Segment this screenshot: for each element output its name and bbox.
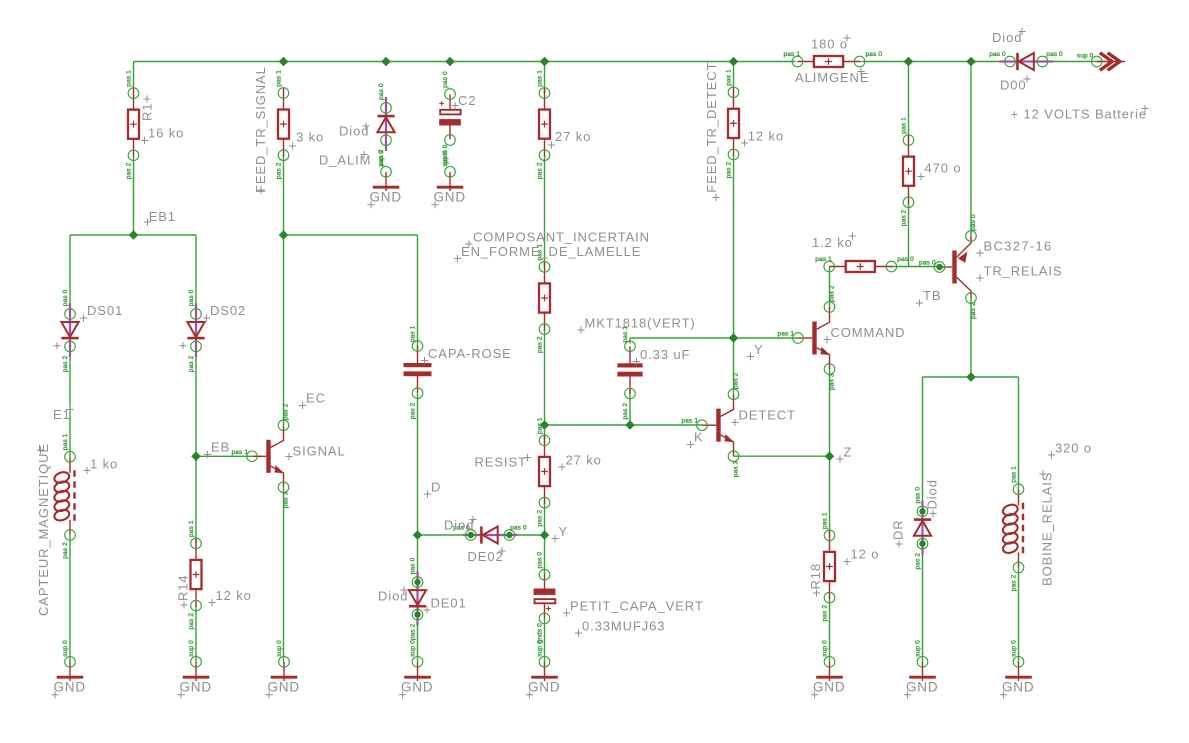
svg-text:1.2 ko: 1.2 ko [812,235,853,250]
svg-text:sup 0: sup 0 [1077,53,1094,60]
svg-text:pas 3: pas 3 [829,373,836,390]
wire Y bus top [630,337,798,339]
svg-text:pas 2: pas 2 [822,605,829,622]
svg-text:CAPA-ROSE: CAPA-ROSE [428,346,512,361]
label value 320 o [1048,441,1092,459]
label ALIMGENE [795,68,869,85]
svg-text:GND: GND [434,190,466,205]
svg-text:pas 2: pas 2 [733,372,740,389]
svg-text:pas 2: pas 2 [62,542,69,559]
label value 12 ko r14 [208,588,251,606]
label Y top [747,342,764,360]
wire supply stub [1052,61,1104,63]
junction Y right [729,333,739,343]
label K [687,430,704,449]
svg-text:pas 2: pas 2 [188,355,195,372]
svg-text:pas 1: pas 1 [276,70,283,87]
svg-text:GND: GND [401,680,433,695]
svg-text:12 ko: 12 ko [748,128,784,143]
svg-text:pas 0: pas 0 [510,525,527,532]
capacitor PETIT_CAPA_VERT [534,552,556,644]
label batterie [1011,105,1149,122]
svg-text:GND: GND [528,680,560,695]
diode D00 [989,51,1063,70]
label CAPA-ROSE [421,346,512,364]
svg-text:DE01: DE01 [431,596,467,611]
label DS02 [203,303,246,322]
svg-text:pas 0: pas 0 [378,83,385,100]
junction rail/470 [904,57,914,67]
junction rail/d_alim [381,57,391,67]
junction Y bottom [540,530,550,540]
label BC327-16 [976,239,1052,257]
label C2 [451,93,476,109]
label DE02 [468,547,506,564]
svg-text:470 o: 470 o [925,161,962,176]
svg-text:0.33MUFJ63: 0.33MUFJ63 [582,619,665,634]
wire to DR [922,377,924,505]
svg-text:pas 0: pas 0 [897,256,914,263]
wire TR collector to relay [970,298,972,377]
svg-text:pas 2: pas 2 [726,162,733,179]
label EC [299,391,326,410]
label Diod dr [925,479,940,517]
svg-text:pas 3: pas 3 [733,460,740,477]
junction rail/TR [966,57,976,67]
resistor RESIST 27k [537,417,551,526]
wire 1.2k to command collector [829,267,831,308]
svg-text:sup 0: sup 0 [410,640,417,657]
svg-text:R14: R14 [176,574,191,601]
svg-text:Y: Y [559,524,569,539]
svg-text:pas 2: pas 2 [970,302,977,319]
svg-text:12 o: 12 o [851,547,880,562]
junction rail/27k [540,57,550,67]
svg-text:RESIST: RESIST [475,455,527,470]
svg-text:Y: Y [754,342,764,357]
label BOBINE_RELAIS [1039,470,1054,586]
svg-text:pas 2: pas 2 [915,553,922,570]
wire to DS01 [69,235,71,308]
svg-text:MKT1818(VERT): MKT1818(VERT) [585,316,696,331]
supply arrow +12V [1077,53,1126,71]
wire 1.2k to TB base [892,266,940,268]
transistor COMMAND [778,285,836,390]
svg-text:pas 2: pas 2 [276,162,283,179]
svg-text:GND: GND [180,680,212,695]
resistor 3k FEED_TR_SIGNAL [276,70,290,179]
svg-text:GND: GND [906,680,938,695]
svg-text:pas 1: pas 1 [726,69,733,86]
svg-text:EC: EC [306,391,326,406]
resistor 1.2k [815,256,914,272]
label R18 [808,563,823,597]
wire EB to base [196,455,252,457]
junction K mkt [625,420,635,430]
svg-text:pas 2: pas 2 [622,403,629,420]
wire 470 top [908,62,910,141]
label Diod de02 [444,516,477,533]
svg-text:3 ko: 3 ko [296,130,324,145]
wire 12k top [733,62,735,88]
label COMPOSANT_INCERTAIN [465,230,650,248]
resistor 12k FEED_TR_DETECT [726,69,740,178]
svg-text:pas 1: pas 1 [1011,466,1018,483]
label R1 [140,95,155,121]
svg-text:GND: GND [813,680,845,695]
inductor CAPTEUR_MAGNETIQUE [53,433,75,558]
svg-text:12 ko: 12 ko [216,588,252,603]
transistor TR_RELAIS [919,214,977,319]
label EB [204,440,230,459]
svg-text:pas 2: pas 2 [537,336,544,353]
resistor R14 12k [188,520,202,629]
label value 27 ko resist [558,453,601,471]
label value 0.33MUFJ63 [575,619,666,637]
svg-text:R18: R18 [808,563,823,590]
svg-text:pas 0: pas 0 [1046,51,1063,58]
wire EC to capa-rose [284,234,418,236]
label value 0.33 uF [633,347,690,365]
svg-text:pas 2: pas 2 [126,162,133,179]
svg-text:GND: GND [1002,680,1034,695]
resistor 470o [901,117,915,226]
svg-text:pas 1: pas 1 [188,520,195,537]
svg-text:Diod: Diod [992,30,1022,45]
svg-text:ALIMGENE: ALIMGENE [795,70,869,85]
svg-text:pas 1: pas 1 [410,325,417,342]
wire 470 to TB wire [908,202,910,267]
svg-text:pas 0: pas 0 [442,71,449,88]
label value 12 ko det [741,128,784,146]
wire capa-rose drop [417,235,419,348]
svg-text:pas 2: pas 2 [537,510,544,527]
wire SIGNAL emitter to gnd [283,487,285,661]
wire DS02 to R14/EB [195,353,197,543]
svg-text:C2: C2 [458,93,476,108]
wire DR to gnd [922,551,924,662]
junction EC [279,230,289,240]
svg-text:GND: GND [268,680,300,695]
junction D node [413,530,423,540]
label TB [916,288,942,307]
junction EB [191,452,201,462]
wire capa-rose to D node [417,394,419,535]
svg-text:DS01: DS01 [87,303,123,318]
inductor BOBINE_RELAIS [1002,466,1024,591]
wire 27k to lamelle [544,155,546,267]
ground GND c2 [431,150,466,208]
svg-text:FEED_TR_SIGNAL: FEED_TR_SIGNAL [253,66,268,193]
svg-text:pas 1: pas 1 [537,70,544,87]
wire resist to petit cap [544,503,546,575]
svg-text:pas 2: pas 2 [410,623,417,640]
diode DR [914,487,931,570]
svg-text:EN_FORME_DE_LAMELLE: EN_FORME_DE_LAMELLE [461,244,641,259]
label value 470 o [917,161,961,181]
capacitor CAPA-ROSE [404,325,432,419]
diode DS02 [187,289,204,372]
label Diod d00 [992,28,1026,45]
capacitor MKT1818 [617,326,642,420]
label RESIST [475,454,532,470]
svg-text:pas 2: pas 2 [537,162,544,179]
label value 12 o r18 [843,547,879,566]
svg-text:sup 0: sup 0 [822,640,829,657]
junction EB1 [129,230,139,240]
diode D_ALIM [377,83,394,166]
svg-text:sup 0: sup 0 [378,150,385,167]
label COMMAND [823,325,905,343]
ground GND bobine [1000,640,1035,698]
svg-text:pas 1: pas 1 [901,117,908,134]
wire Y bus bottom [418,534,545,536]
ground GND d_alim [367,150,402,208]
wire R18 to gnd [829,598,831,662]
diode DE02 [453,525,527,544]
label D_ALIM [319,151,371,168]
ground GND dr [904,640,939,698]
transistor SIGNAL [232,403,290,508]
label D00 [1000,75,1031,92]
ground GND signal [265,640,300,698]
label EB1 [144,209,176,226]
label TR_RELAIS [976,264,1062,282]
svg-text:Diod: Diod [925,479,940,509]
label MKT1818(VERT) [577,316,695,334]
svg-text:sup 0: sup 0 [276,640,283,657]
svg-text:FEED_TR_DETECT: FEED_TR_DETECT [704,62,719,193]
svg-text:sup 0: sup 0 [442,150,449,167]
svg-text:pas 0: pas 0 [970,214,977,231]
wire relay top bus [923,376,1019,378]
svg-text:pas 0: pas 0 [537,552,544,569]
wire R14 to gnd [195,606,197,662]
svg-text:COMPOSANT_INCERTAIN: COMPOSANT_INCERTAIN [473,230,650,245]
svg-text:pas 1: pas 1 [784,51,801,58]
svg-text:K: K [694,430,704,445]
label Y bottom [551,524,568,542]
svg-text:pas 2: pas 2 [1011,574,1018,591]
svg-text:SIGNAL: SIGNAL [293,444,346,459]
label EN_FORME_DE_LAMELLE [454,244,641,262]
svg-text:EB: EB [211,440,230,455]
svg-text:PETIT_CAPA_VERT: PETIT_CAPA_VERT [570,599,704,614]
diode DS01 [61,289,78,372]
resistor 27k top [537,70,551,179]
svg-text:D00: D00 [1000,78,1027,93]
svg-text:pas 1: pas 1 [682,418,699,425]
label value 3 ko [289,130,324,150]
resistor ALIMGENE 180o [784,51,883,67]
svg-text:D: D [431,480,441,495]
svg-text:pas 1: pas 1 [537,417,544,434]
svg-text:BOBINE_RELAIS: BOBINE_RELAIS [1040,472,1055,586]
svg-text:COMMAND: COMMAND [831,325,906,340]
svg-text:TB: TB [923,288,941,303]
svg-text:DR: DR [891,519,906,540]
svg-text:DS02: DS02 [210,303,246,318]
label R14 [176,574,191,608]
wire command emitter to R18 [829,369,831,535]
svg-text:sup 0: sup 0 [1011,640,1018,657]
wire detect emitter to Z [734,455,830,457]
junction rail/12k [729,57,739,67]
label value 180 o [811,34,851,51]
svg-text:GND: GND [54,680,86,695]
svg-text:27 ko: 27 ko [555,129,591,144]
svg-text:16 ko: 16 ko [148,126,184,141]
label value 1 ko [83,457,118,475]
svg-text:Z: Z [844,445,853,460]
svg-text:sup 0: sup 0 [537,640,544,657]
label plus ds01 [53,342,60,349]
wire rail to TR emitter [970,62,972,236]
label Diod de01 [378,586,408,603]
svg-text:pas 2: pas 2 [901,209,908,226]
svg-text:pas 2: pas 2 [188,613,195,630]
wire +12V top rail left [134,61,796,63]
svg-text:DETECT: DETECT [739,408,796,423]
svg-text:pas 1: pas 1 [822,512,829,529]
svg-text:sup 0: sup 0 [188,640,195,657]
wire K bus [545,424,703,426]
label value 1.2 ko [812,232,856,250]
junction relay [966,372,976,382]
wire to DE01 [417,535,419,575]
wire DE01 to gnd [417,621,419,662]
svg-text:pas 0: pas 0 [410,557,417,574]
capacitor C2 [439,71,461,165]
wire DS01 to coil [69,353,71,457]
label D [424,480,441,498]
wire lamelle to resist [544,329,546,441]
label plus ds02 [179,342,186,349]
label E1 [53,406,74,422]
svg-text:pas 0: pas 0 [62,289,69,306]
resistor R18 12o [822,512,836,621]
junction Z [825,451,835,461]
svg-text:BC327-16: BC327-16 [984,239,1053,254]
label FEED_TR_SIGNAL [253,66,268,193]
label PETIT_CAPA_VERT [563,599,704,617]
wire petit cap to gnd [544,618,546,661]
svg-text:pas 2: pas 2 [410,402,417,419]
svg-text:R1: R1 [140,103,155,121]
svg-text:TR_RELAIS: TR_RELAIS [984,264,1063,279]
wire R1 to EB1 [133,156,135,235]
svg-text:+ 12 VOLTS Batterie: + 12 VOLTS Batterie [1011,107,1147,122]
ground GND r18 [811,640,846,698]
label value 16 ko [141,126,184,145]
svg-text:EB1: EB1 [149,209,176,224]
svg-text:pas 1: pas 1 [126,70,133,87]
transistor DETECT [682,372,740,477]
svg-text:pas 1: pas 1 [778,331,795,338]
wire coil to gnd [69,535,71,662]
wire to bobine [1018,377,1020,489]
label DETECT [731,408,796,427]
svg-text:pas 0: pas 0 [188,289,195,306]
svg-text:CAPTEUR_MAGNETIQUE: CAPTEUR_MAGNETIQUE [36,443,51,616]
svg-text:pas 3: pas 3 [283,491,290,508]
svg-text:sup 0: sup 0 [915,640,922,657]
svg-text:1 ko: 1 ko [90,457,118,472]
svg-text:pas 2: pas 2 [283,403,290,420]
label DE01 [423,596,466,614]
wire EC column [283,155,285,425]
ground GND r14 [177,640,212,698]
junction rail/c2 [445,57,455,67]
ground GND de01 [399,640,434,698]
label DR [891,519,906,547]
svg-text:sup 0: sup 0 [62,640,69,657]
svg-text:pas 2: pas 2 [829,285,836,302]
diode DE01 [409,557,426,640]
label DS01 [80,303,123,322]
label FEED_TR_DETECT [704,62,720,201]
svg-text:pas 0: pas 0 [919,260,936,267]
wire to DS02 [195,235,197,308]
wire R1 top [133,62,135,89]
wire 27k top [544,62,546,94]
resistor R1 16k [126,70,140,179]
wire bobine to gnd [1018,567,1020,662]
wire EB1 bus [70,234,196,236]
svg-text:pas 1: pas 1 [232,449,249,456]
wire 12k to detect collector [733,155,735,394]
ground GND capteur [51,640,86,698]
svg-text:pas 0: pas 0 [915,487,922,504]
svg-text:pas 2: pas 2 [62,355,69,372]
junction rail/3k [279,57,289,67]
ground GND petit [526,640,561,698]
wire mkt to K bus [629,390,631,425]
label value 27 ko top [548,129,591,149]
label CAPTEUR_MAGNETIQUE [36,443,51,616]
wire mkt riser [629,338,631,344]
svg-text:pas 0: pas 0 [989,51,1006,58]
svg-text:320 o: 320 o [1055,441,1092,456]
svg-text:pas 1: pas 1 [62,433,69,450]
svg-text:0.33 uF: 0.33 uF [640,347,690,362]
label Z [836,445,852,463]
wire +12V top rail mid [862,61,1002,63]
resistor COMPOSANT_INCERTAIN [537,244,551,353]
label Diod d_alim [339,122,370,138]
svg-text:pas 1: pas 1 [815,256,832,263]
svg-text:pas 0: pas 0 [866,51,883,58]
svg-text:27 ko: 27 ko [566,453,602,468]
junction K left [540,420,550,430]
svg-text:GND: GND [370,190,402,205]
svg-text:DE02: DE02 [468,549,504,564]
label SIGNAL [285,444,345,461]
svg-text:180 o: 180 o [811,37,848,52]
